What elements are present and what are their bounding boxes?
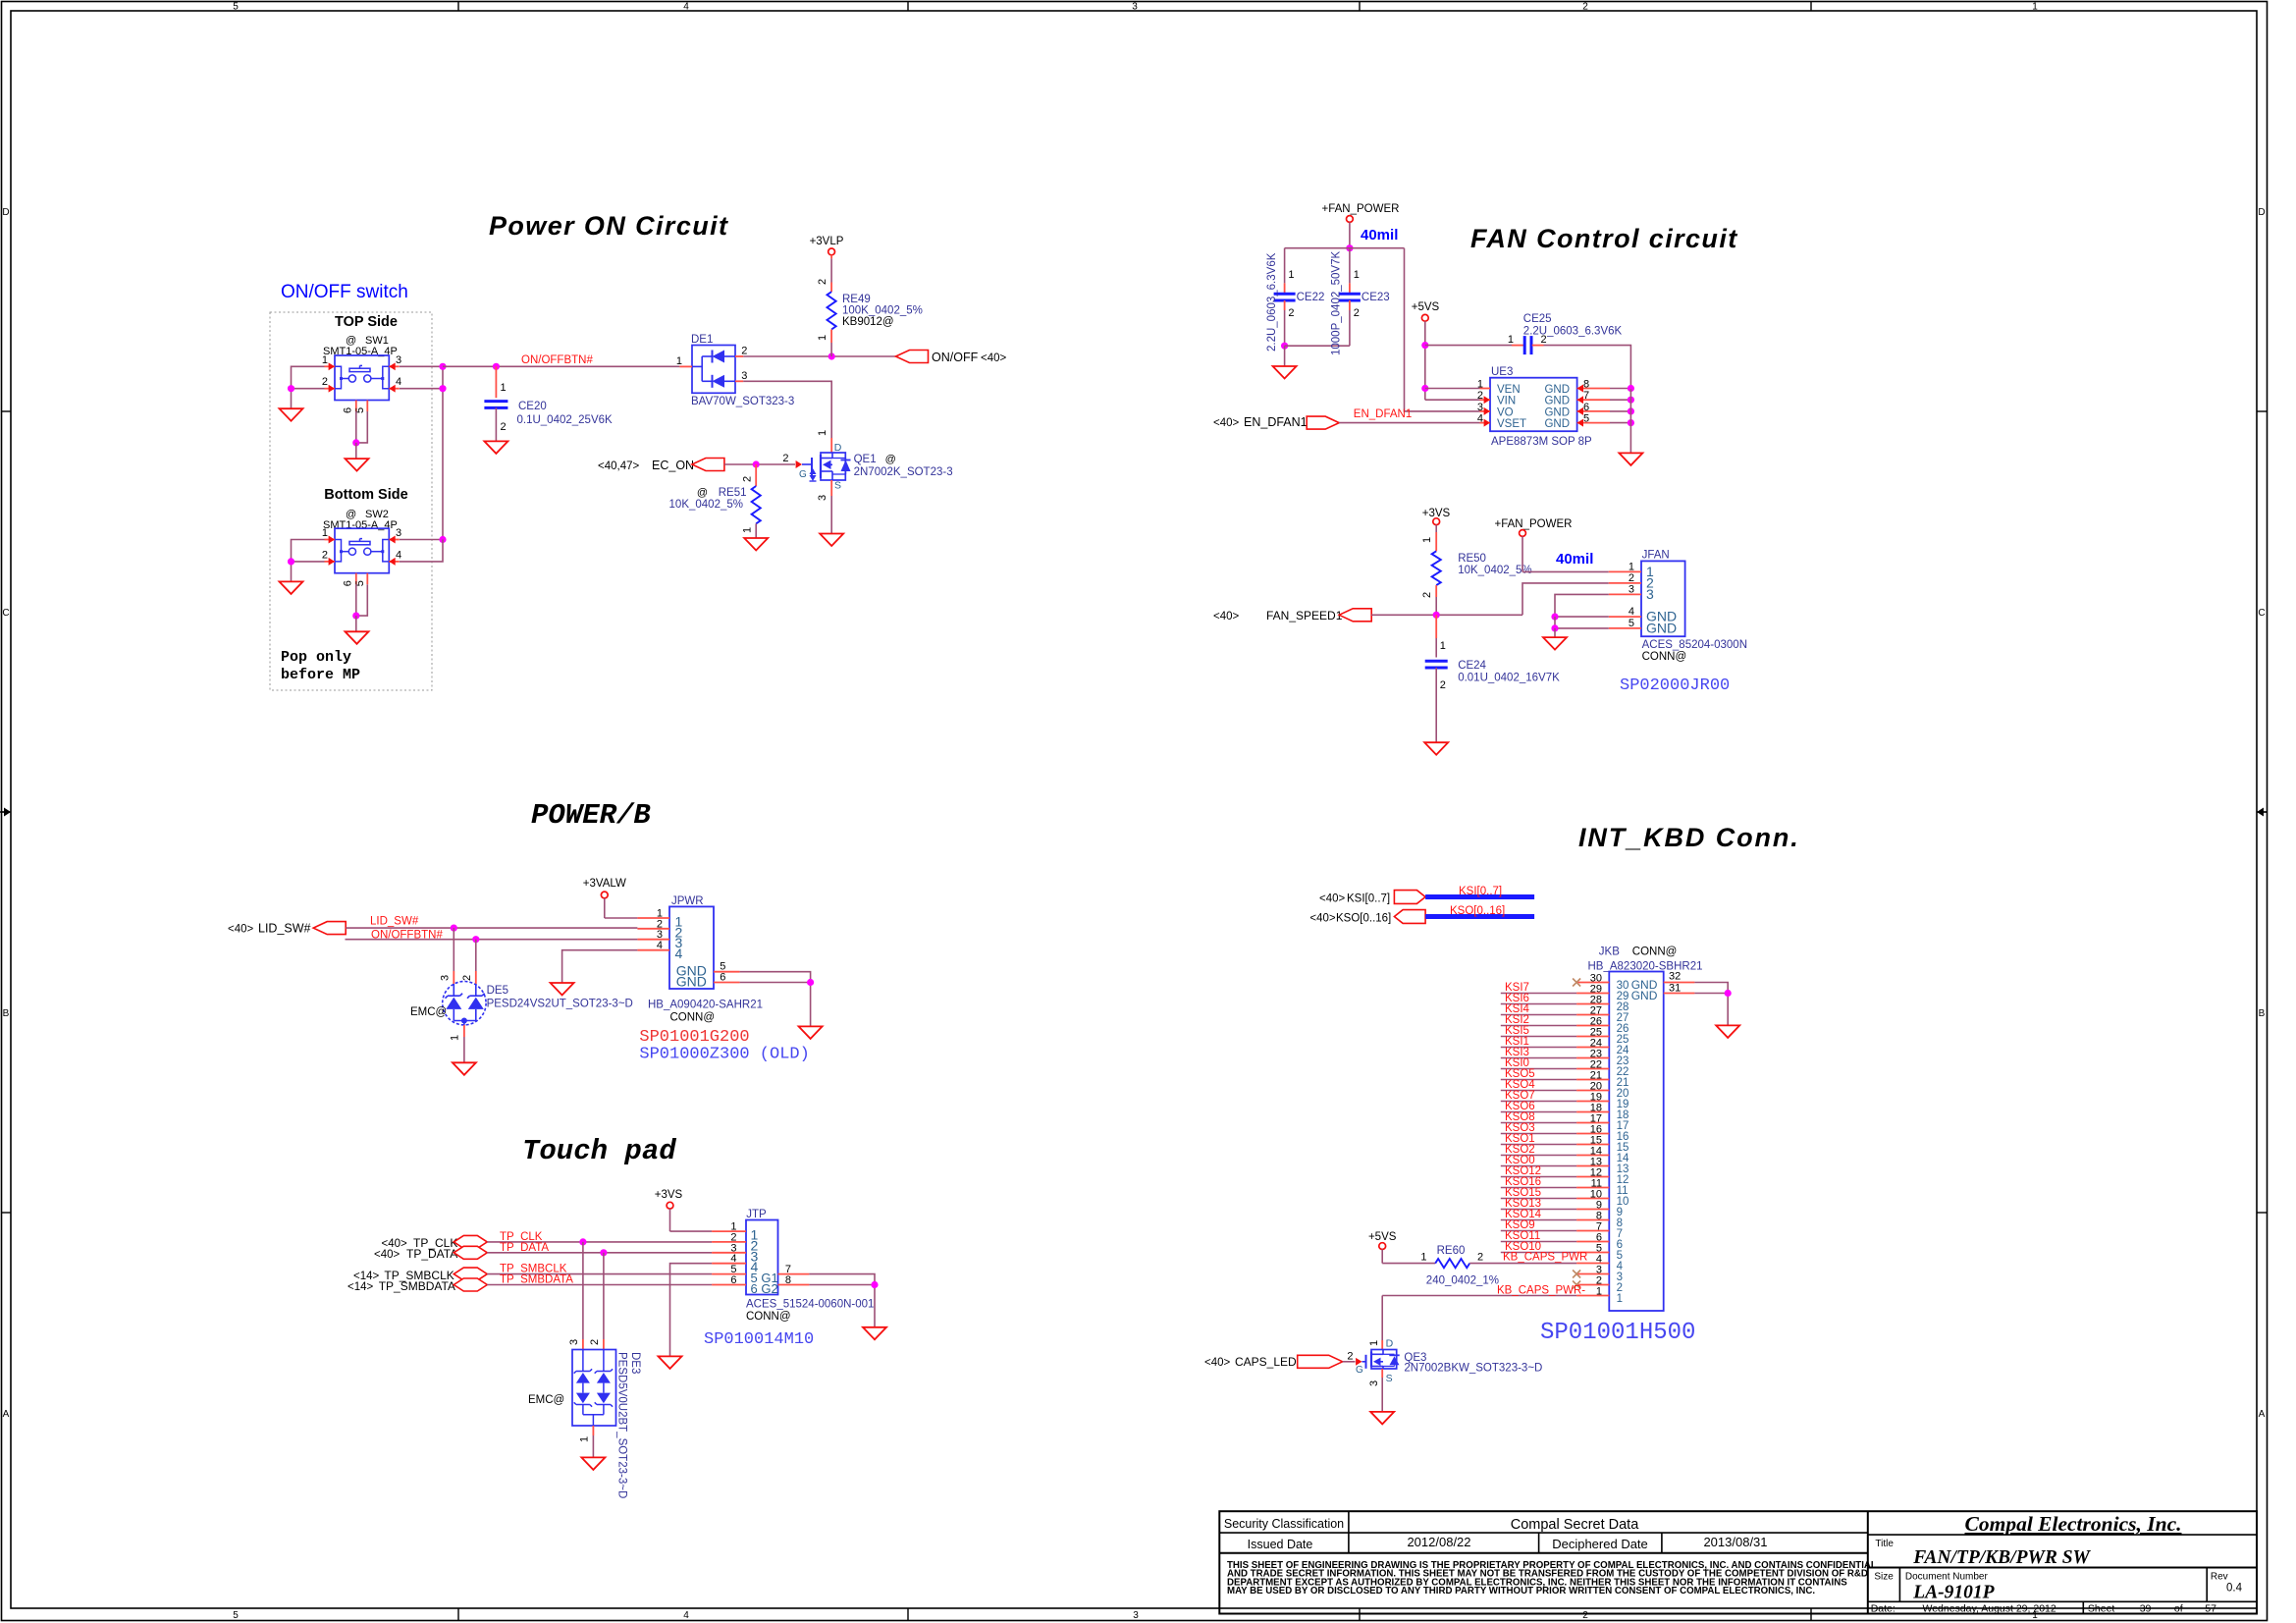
svg-text:<40,47>: <40,47> (598, 460, 639, 472)
svg-text:S: S (834, 480, 841, 492)
wire DE5 pin1 to ground (463, 1025, 465, 1037)
svg-text:4: 4 (396, 376, 401, 388)
svg-text:3: 3 (1629, 583, 1634, 595)
wire SW1 pin3 to node (400, 365, 443, 367)
svg-text:FAN/TP/KB/PWR SW: FAN/TP/KB/PWR SW (1912, 1547, 2091, 1568)
svg-text:1: 1 (742, 527, 754, 533)
wire CE22-CE23 bottom (1285, 345, 1350, 347)
svg-text:before MP: before MP (281, 667, 360, 683)
svg-text:CAPS_LED: CAPS_LED (1235, 1355, 1297, 1369)
junction SW2 left (288, 558, 294, 565)
svg-text:0.4: 0.4 (2226, 1583, 2243, 1595)
junction JPWR gnd (807, 979, 814, 986)
wire SW1 pin4 to node (400, 388, 443, 390)
svg-text:3: 3 (817, 495, 828, 501)
svg-text:1: 1 (817, 335, 828, 341)
svg-text:3: 3 (1132, 2, 1138, 13)
wire KSO15 (1501, 1198, 1576, 1200)
svg-text:2: 2 (322, 549, 328, 561)
wire UE3 gnd to rail (1610, 410, 1630, 412)
svg-text:FAN_SPEED1: FAN_SPEED1 (1266, 609, 1343, 622)
border zone ticks right (2257, 410, 2268, 412)
ground JTP right (863, 1327, 886, 1340)
svg-text:6: 6 (730, 1274, 736, 1286)
wire KSO14 (1501, 1219, 1576, 1221)
svg-text:4: 4 (683, 2, 689, 13)
ground JFAN (1554, 628, 1556, 637)
svg-text:0.1U_0402_25V6K: 0.1U_0402_25V6K (517, 414, 614, 426)
svg-text:1: 1 (1596, 1286, 1602, 1298)
connector JTP pin 4 (712, 1263, 746, 1265)
wire SW2 pin1 to ground (292, 540, 325, 582)
ground UE3 (1619, 453, 1642, 465)
connector JKB pin 11 (1576, 1187, 1609, 1189)
junction RE49 bottom (828, 352, 835, 359)
connector JPWR gnd pins (714, 971, 740, 973)
ic UE3 pin 5 GND (1577, 422, 1610, 424)
svg-text:1: 1 (2032, 2, 2038, 13)
svg-text:ON/OFF switch: ON/OFF switch (281, 282, 408, 302)
wire SW1 pin1 to ground (292, 366, 325, 408)
resistor RE51 (755, 464, 757, 486)
svg-text:2: 2 (1477, 1252, 1483, 1264)
svg-text:4: 4 (396, 549, 401, 561)
svg-text:2N7002BKW_SOT323-3~D: 2N7002BKW_SOT323-3~D (1404, 1363, 1542, 1375)
switch SW2 pin stubs (325, 539, 336, 541)
bus KSO (1425, 914, 1534, 919)
wire KSO6 (1501, 1111, 1576, 1113)
wire JFAN pin5 branch (1555, 617, 1609, 628)
svg-text:1: 1 (1508, 334, 1514, 346)
connector JTP pin 1 (712, 1230, 746, 1232)
svg-text:Issued Date: Issued Date (1248, 1538, 1313, 1551)
wire KSI7 (1501, 993, 1576, 995)
svg-text:<40>: <40> (1213, 417, 1240, 429)
wire SW1 pin2 (292, 388, 325, 390)
svg-text:3: 3 (396, 354, 401, 366)
wire +FAN_POWER rail (1349, 222, 1351, 247)
svg-text:LID_SW#: LID_SW# (370, 916, 419, 928)
svg-text:POWER/B: POWER/B (531, 799, 651, 832)
wire JFAN pin4 branch (1555, 616, 1609, 618)
svg-text:CE23: CE23 (1362, 292, 1390, 303)
svg-text:SP01001G200: SP01001G200 (639, 1028, 749, 1047)
svg-text:2: 2 (461, 975, 473, 981)
svg-text:ON/OFFBTN#: ON/OFFBTN# (521, 354, 593, 366)
svg-text:CONN@: CONN@ (1642, 651, 1687, 663)
connector JKB pin 16 (1576, 1133, 1609, 1135)
svg-text:INT_KBD Conn.: INT_KBD Conn. (1578, 823, 1800, 852)
svg-text:<40>: <40> (1309, 913, 1336, 925)
wire DE1 pin3 to QE1 drain (743, 381, 831, 438)
svg-text:FAN Control circuit: FAN Control circuit (1470, 224, 1738, 253)
svg-text:SP02000JR00: SP02000JR00 (1620, 676, 1730, 695)
wire KSI6 (1501, 1003, 1576, 1005)
svg-text:GND: GND (1646, 620, 1677, 635)
svg-text:<40>: <40> (981, 352, 1007, 364)
svg-text:BAV70W_SOT323-3: BAV70W_SOT323-3 (691, 396, 794, 407)
connector JKB pin 9 (1576, 1209, 1609, 1211)
diode DE1 pin stubs (679, 365, 692, 367)
svg-text:5: 5 (233, 2, 239, 13)
wire KSI1 (1501, 1047, 1576, 1049)
svg-text:<40>: <40> (228, 924, 254, 936)
diode DE1 lower element (702, 380, 712, 382)
connector JTP pin 5 (712, 1273, 746, 1275)
svg-text:A: A (3, 1409, 10, 1420)
wire SW2 pin3 to node (400, 539, 443, 541)
svg-text:G: G (1356, 1365, 1363, 1376)
border zone ticks left (2, 410, 12, 412)
connector JKB pin 24 (1576, 1047, 1609, 1049)
svg-text:Wednesday, August 29, 2012: Wednesday, August 29, 2012 (1923, 1603, 2056, 1615)
svg-text:MAY BE USED BY OR DISCLOSED TO: MAY BE USED BY OR DISCLOSED TO ANY THIRD… (1227, 1586, 1815, 1596)
ground SW1 left (280, 408, 303, 421)
svg-text:B: B (2259, 1008, 2266, 1019)
svg-text:<14>: <14> (347, 1281, 374, 1293)
connector JKB pin 7 (1576, 1230, 1609, 1232)
svg-text:Deciphered Date: Deciphered Date (1552, 1537, 1648, 1551)
svg-text:2: 2 (1347, 1351, 1353, 1363)
wire FAN_SPEED1 riser to JFAN pin2 (1522, 583, 1609, 615)
svg-text:CONN@: CONN@ (746, 1311, 791, 1323)
connector JKB pin 21 (1576, 1079, 1609, 1081)
wire QE3 source to ground (1381, 1369, 1383, 1378)
titleblock left table lines (1219, 1532, 1868, 1534)
svg-text:+5VS: +5VS (1412, 301, 1440, 313)
svg-text:APE8873M SOP 8P: APE8873M SOP 8P (1491, 436, 1592, 448)
svg-text:2: 2 (322, 376, 328, 388)
connector JTP pin 6 (712, 1284, 746, 1286)
wire JTP pin4 to ground (670, 1264, 713, 1357)
svg-text:6: 6 (343, 407, 354, 413)
ground SW2 left (280, 581, 303, 594)
svg-text:2: 2 (817, 279, 828, 285)
tvs diode DE3 column (582, 1350, 584, 1372)
ground QE3 (1370, 1412, 1394, 1425)
ground RE51 (744, 538, 768, 551)
connector JTP body (746, 1220, 778, 1295)
svg-text:1: 1 (1421, 537, 1433, 543)
svg-text:100K_0402_5%: 100K_0402_5% (842, 305, 923, 317)
svg-text:C: C (2258, 608, 2265, 619)
switch SW1 pin stubs (325, 365, 336, 367)
wire node vertical SW1-SW2 (442, 366, 444, 539)
ground QE1 (820, 534, 843, 547)
wire KSO5 (1501, 1079, 1576, 1081)
wire QE1 source to ground (830, 480, 832, 496)
wire JFAN pin3 gnd branch (1555, 594, 1609, 617)
svg-text:HB_A090420-SAHR21: HB_A090420-SAHR21 (648, 1000, 763, 1011)
svg-text:31: 31 (1669, 983, 1681, 995)
svg-text:57: 57 (2205, 1603, 2216, 1615)
svg-text:A: A (2259, 1409, 2266, 1420)
connector JKB pin 1 (1576, 1295, 1609, 1297)
ic UE3 pin 7 GND (1577, 399, 1610, 401)
wire CAPS_LED to QE3 gate (1343, 1361, 1356, 1363)
connector JKB pin 13 (1576, 1165, 1609, 1167)
connector JKB pin 23 (1576, 1057, 1609, 1059)
wire KSI2 (1501, 1025, 1576, 1027)
tvs diode DE3 column (603, 1350, 605, 1372)
titleblock outer (1219, 1511, 2257, 1613)
svg-text:8: 8 (785, 1274, 791, 1286)
ic UE3 pin 4 VSET (1480, 422, 1491, 424)
transistor QE3 (1381, 1296, 1383, 1341)
junction RE51 tap (753, 460, 760, 467)
wire TP_SMBCLK (487, 1273, 712, 1275)
svg-text:3: 3 (1368, 1380, 1380, 1386)
svg-text:GND: GND (1544, 396, 1570, 407)
wire KB_CAPS_PWR (1469, 1263, 1576, 1265)
ground JTP pin4 (659, 1356, 682, 1369)
svg-text:3: 3 (1133, 1610, 1139, 1621)
svg-text:4: 4 (657, 940, 663, 951)
wire KB_CAPS_PWR- (1382, 1295, 1576, 1297)
svg-text:1: 1 (1617, 1293, 1623, 1305)
svg-text:2013/08/31: 2013/08/31 (1703, 1535, 1767, 1549)
svg-text:1: 1 (579, 1436, 591, 1442)
junction SW1 left (288, 385, 294, 392)
ground SW1 bottom (346, 459, 369, 471)
svg-text:5: 5 (233, 1610, 239, 1621)
connector JKB pin 27 (1576, 1014, 1609, 1016)
wire ON/OFFBTN# (443, 365, 679, 367)
wire ON/OFFBTN# (power/b) (346, 939, 638, 941)
svg-text:DE5: DE5 (487, 985, 508, 997)
connector JKB pin 3 (1576, 1273, 1609, 1275)
wire KSI3 (1501, 1057, 1576, 1059)
svg-text:2: 2 (742, 476, 754, 482)
connector JFAN pin 3 (1609, 593, 1641, 595)
capacitor CE23 (1349, 248, 1351, 284)
ic UE3 pin 3 VO (1480, 410, 1491, 412)
svg-text:JTP: JTP (746, 1209, 767, 1220)
ground JPWR right (799, 1026, 823, 1039)
svg-text:2.2U_0603_6.3V6K: 2.2U_0603_6.3V6K (1523, 326, 1623, 338)
svg-text:PESD5V0U2BT_SOT23-3~D: PESD5V0U2BT_SOT23-3~D (616, 1352, 628, 1498)
connector JKB pin 20 (1576, 1090, 1609, 1092)
junction CE22 bottom (1281, 343, 1288, 350)
wire KSO1 (1501, 1144, 1576, 1146)
svg-text:CE25: CE25 (1523, 313, 1552, 325)
svg-text:+5VS: +5VS (1368, 1231, 1397, 1243)
border mid-edge arrow left (0, 811, 6, 813)
svg-text:KSO[0..16]: KSO[0..16] (1450, 905, 1505, 917)
wire +3VLP to RE49 (830, 255, 832, 259)
svg-text:TOP Side: TOP Side (335, 314, 398, 330)
wire JPWR gnd pins to ground (740, 972, 811, 1027)
svg-text:2: 2 (1440, 679, 1446, 691)
svg-text:VIN: VIN (1497, 396, 1516, 407)
svg-text:CONN@: CONN@ (670, 1012, 716, 1024)
connector JKB pin 4 (1576, 1263, 1609, 1265)
svg-text:D: D (1386, 1338, 1394, 1350)
svg-text:SP01001H500: SP01001H500 (1540, 1320, 1695, 1346)
connector JKB pin 10 (1576, 1198, 1609, 1200)
connector JPWR body (669, 906, 714, 989)
svg-text:1: 1 (1440, 640, 1446, 652)
svg-text:3: 3 (1646, 586, 1654, 602)
capacitor CE20 (495, 366, 497, 398)
switch SW1 body (335, 355, 389, 401)
svg-text:QE1: QE1 (854, 454, 877, 465)
wire +5VS rail (1424, 321, 1426, 400)
svg-text:10K_0402_5%: 10K_0402_5% (1458, 565, 1531, 576)
connector JFAN pin 4 (1609, 616, 1641, 618)
svg-text:C: C (2, 608, 9, 619)
bus KSI (1425, 894, 1534, 899)
svg-text:CE22: CE22 (1297, 292, 1325, 303)
svg-text:1: 1 (1288, 269, 1294, 281)
svg-text:2N7002K_SOT23-3: 2N7002K_SOT23-3 (854, 466, 953, 478)
svg-text:7: 7 (1583, 390, 1589, 402)
switch SW2 body (335, 528, 389, 573)
svg-text:EC_ON: EC_ON (652, 459, 694, 472)
svg-text:KB_CAPS_PWR: KB_CAPS_PWR (1503, 1252, 1587, 1264)
wire SW2 bottom pins to ground (355, 584, 357, 616)
svg-text:2: 2 (1288, 307, 1294, 319)
junction JTP gnd (871, 1281, 878, 1288)
connector JKB pin 22 (1576, 1068, 1609, 1070)
wire +5VS to RE60 (1381, 1250, 1383, 1264)
connector JTP pin 2 (712, 1241, 746, 1243)
svg-text:JPWR: JPWR (671, 895, 704, 907)
svg-text:0.01U_0402_16V7K: 0.01U_0402_16V7K (1458, 673, 1560, 684)
wire FAN_SPEED1 (1371, 614, 1522, 616)
svg-text:JKB: JKB (1599, 947, 1620, 958)
connector JKB pin 28 (1576, 1003, 1609, 1005)
svg-text:RE49: RE49 (842, 294, 871, 305)
svg-text:B: B (3, 1008, 10, 1019)
ground JKB (1716, 1025, 1739, 1038)
wire +3VS to JTP pin1 (669, 1209, 671, 1231)
connector JKB pin 6 (1576, 1241, 1609, 1243)
wire KSO9 (1501, 1230, 1576, 1232)
connector JFAN pin 5 (1609, 627, 1641, 629)
border zone ticks bottom (457, 1608, 459, 1621)
svg-text:KSI[0..7]: KSI[0..7] (1347, 893, 1390, 905)
svg-text:2: 2 (1582, 2, 1588, 13)
svg-text:DE1: DE1 (691, 334, 713, 346)
svg-text:+FAN_POWER: +FAN_POWER (1322, 203, 1400, 215)
svg-text:1: 1 (501, 382, 507, 394)
wire KSI5 (1501, 1036, 1576, 1038)
svg-text:RE50: RE50 (1458, 553, 1486, 565)
wire UE3 gnd to rail (1610, 399, 1630, 401)
svg-text:Sheet: Sheet (2088, 1603, 2115, 1615)
svg-text:SP01000Z300 (OLD): SP01000Z300 (OLD) (639, 1046, 809, 1064)
svg-text:1: 1 (1368, 1340, 1380, 1346)
wire +5VS to VEN (1425, 388, 1480, 390)
svg-text:2: 2 (1582, 1610, 1588, 1621)
connector JKB pin 5 (1576, 1252, 1609, 1254)
svg-text:VEN: VEN (1497, 384, 1521, 396)
svg-text:40mil: 40mil (1361, 227, 1398, 243)
svg-text:Touch pad: Touch pad (522, 1135, 676, 1167)
capacitor CE25 (1425, 345, 1512, 347)
svg-text:1: 1 (1354, 269, 1360, 281)
wire KSO3 (1501, 1133, 1576, 1135)
connector JKB pin 2 (1576, 1284, 1609, 1286)
svg-text:Compal Secret Data: Compal Secret Data (1511, 1517, 1639, 1533)
connector JKB pin 14 (1576, 1155, 1609, 1157)
svg-text:KB_CAPS_PWR-: KB_CAPS_PWR- (1497, 1284, 1585, 1296)
svg-text:GND: GND (1544, 384, 1570, 396)
svg-text:Pop only: Pop only (281, 649, 351, 666)
svg-text:CONN@: CONN@ (1632, 947, 1678, 958)
svg-text:2: 2 (1421, 592, 1433, 598)
connector JKB body (1609, 972, 1663, 1312)
svg-text:TP_SMBDATA: TP_SMBDATA (379, 1279, 455, 1293)
wire UE3 gnd to rail (1610, 388, 1630, 390)
svg-text:1: 1 (1629, 561, 1634, 572)
svg-text:4: 4 (683, 1610, 689, 1621)
ground SW2 bottom (346, 631, 369, 644)
svg-text:2: 2 (741, 346, 747, 357)
svg-text:PESD24VS2UT_SOT23-3~D: PESD24VS2UT_SOT23-3~D (487, 999, 633, 1010)
svg-text:RE60: RE60 (1437, 1245, 1466, 1257)
svg-text:Size: Size (1874, 1572, 1894, 1583)
ic UE3 body (1490, 378, 1577, 432)
svg-text:Date:: Date: (1871, 1603, 1896, 1615)
svg-text:GND: GND (1544, 418, 1570, 430)
svg-text:KSI[0..7]: KSI[0..7] (1459, 886, 1502, 897)
svg-text:RE51: RE51 (719, 487, 747, 499)
capacitor CE22 (1284, 248, 1286, 284)
connector JKB pin 8 (1576, 1219, 1609, 1221)
ground DE3 (581, 1457, 605, 1470)
svg-text:<40>: <40> (1319, 893, 1346, 905)
svg-text:ACES_51524-0060N-001: ACES_51524-0060N-001 (746, 1299, 874, 1311)
border zone ticks top (457, 2, 459, 12)
svg-text:3: 3 (440, 975, 452, 981)
wire KSO0 (1501, 1165, 1576, 1167)
svg-text:TP_DATA: TP_DATA (406, 1247, 457, 1261)
svg-text:EN_DFAN1: EN_DFAN1 (1354, 408, 1412, 420)
svg-text:6: 6 (1583, 402, 1589, 413)
connector JPWR pin 2 (637, 928, 669, 930)
svg-text:ACES_85204-0300N: ACES_85204-0300N (1642, 639, 1747, 651)
svg-text:3: 3 (1477, 402, 1483, 413)
svg-text:<40>: <40> (1204, 1357, 1231, 1369)
svg-text:CE20: CE20 (518, 401, 547, 412)
svg-text:Security Classification: Security Classification (1224, 1517, 1344, 1531)
svg-text:LID_SW#: LID_SW# (258, 922, 311, 936)
connector JKB pin 12 (1576, 1176, 1609, 1178)
svg-text:ON/OFF: ON/OFF (932, 351, 979, 364)
svg-text:240_0402_1%: 240_0402_1% (1426, 1275, 1499, 1287)
svg-text:Bottom Side: Bottom Side (324, 487, 407, 503)
wire EC_ON to QE1 gate (724, 463, 795, 465)
wire KSO2 (1501, 1155, 1576, 1157)
wire SW2 pin2 (292, 561, 325, 563)
connector JKB pin 32 (1664, 982, 1695, 984)
svg-text:@: @ (697, 487, 708, 499)
svg-text:VO: VO (1497, 406, 1514, 418)
svg-text:4: 4 (1629, 606, 1634, 618)
connector JFAN body (1641, 561, 1685, 636)
svg-text:2.2U_0603_6.3V6K: 2.2U_0603_6.3V6K (1266, 252, 1278, 352)
wire ON/OFF net (743, 355, 895, 357)
svg-text:EN_DFAN1: EN_DFAN1 (1244, 415, 1308, 429)
svg-text:2: 2 (589, 1339, 601, 1345)
junction ON/OFFBTN# / DE5 (472, 936, 479, 943)
svg-text:2012/08/22: 2012/08/22 (1407, 1535, 1470, 1549)
ground CE22 (1284, 346, 1286, 366)
svg-text:1: 1 (676, 355, 682, 367)
connector JPWR pin 4 (637, 949, 669, 951)
